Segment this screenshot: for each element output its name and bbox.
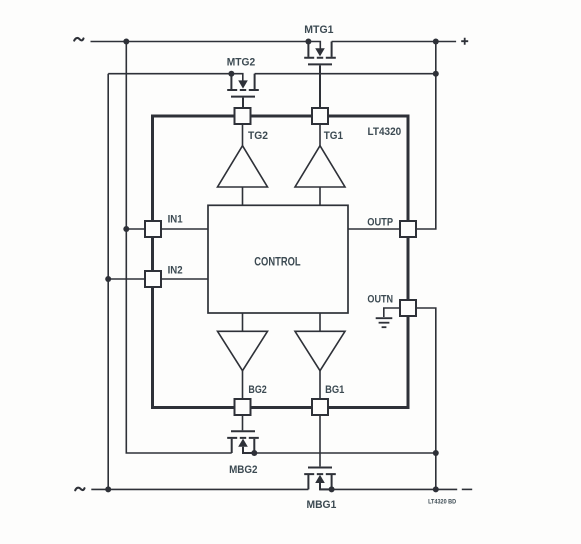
svg-text:BG1: BG1 [325, 384, 344, 396]
wire TG1 pin to buffer A1 [319, 124, 321, 146]
wire TG2 pin to buffer A2 [242, 124, 244, 146]
node junction dot OUTN line / bottom rail [433, 486, 439, 492]
svg-text:LT4320: LT4320 [368, 126, 402, 138]
pin OUTP [400, 221, 416, 237]
wire OUTN right line down to bottom rail [416, 308, 436, 489]
buffer A2 gate driver TG2 [218, 146, 268, 187]
svg-text:CONTROL: CONTROL [254, 256, 300, 268]
node junction dot line A / top rail [123, 39, 129, 45]
svg-text:OUTN: OUTN [367, 294, 393, 306]
wire buffer A4 to BG1 pin [319, 371, 321, 399]
wire line B (x=108) from MTG2 drain down to bottom rail [107, 74, 109, 490]
ground [376, 318, 393, 327]
wire IN2 pin to CONTROL [161, 278, 208, 280]
svg-text:TG1: TG1 [324, 130, 343, 142]
svg-text:LT4320 BD: LT4320 BD [428, 499, 456, 506]
wire bottom rail right [320, 488, 457, 490]
pin IN1 [145, 221, 161, 237]
wire line A (x=126) from top rail down to MBG2 drain [126, 42, 231, 454]
node junction dot line B / bottom rail [105, 486, 111, 492]
wire IN2 from line B to IN2 pin [108, 278, 145, 280]
buffer A4 gate driver BG1 [295, 331, 345, 370]
+ terminal [461, 38, 468, 45]
wire MBG1 gate from BG1 pin [319, 415, 321, 466]
svg-text:BG2: BG2 [248, 384, 266, 396]
pin IN2 [145, 271, 161, 287]
svg-text:IN2: IN2 [168, 264, 183, 276]
wire MBG2 source to OUTN line [254, 452, 435, 454]
wire CONTROL to buffer A3 (BG2) [242, 313, 244, 331]
svg-text:MTG1: MTG1 [304, 24, 333, 36]
wire MTG2 drain net: corner at line B down [108, 74, 243, 81]
svg-text:MTG2: MTG2 [227, 56, 255, 68]
wire IN1 pin to CONTROL [161, 228, 208, 230]
control block [208, 205, 348, 313]
svg-text:TG2: TG2 [248, 130, 268, 142]
wire buffer A1 to CONTROL [319, 187, 321, 205]
chip outline U1 LT4320 [153, 116, 409, 408]
AC source terminal bottom (~) [75, 488, 84, 491]
buffer A1 gate driver TG1 [295, 146, 345, 187]
svg-text:MBG1: MBG1 [307, 499, 337, 511]
wire MTG2 source to OUTP vertical line [255, 73, 436, 75]
transistor MBG2 (N-MOSFET, bottom left) [227, 431, 259, 453]
transistor MBG1 (N-MOSFET, bottom right) [304, 468, 336, 490]
node junction dot line A / IN1 wire [123, 226, 129, 232]
svg-text:MBG2: MBG2 [229, 464, 257, 476]
wire top rail right to + terminal [332, 41, 457, 43]
wire buffer A2 to CONTROL [242, 187, 244, 205]
pin OUTN [400, 300, 416, 316]
node junction dot MTG1 drain [305, 39, 311, 45]
wire CONTROL to OUTP pin [348, 228, 400, 230]
wire top AC rail left (net AC1) [91, 42, 321, 49]
node junction dot MTG2 drain [228, 71, 234, 77]
pin BG2 [235, 399, 251, 415]
wire IN1 from line A to IN1 pin [126, 228, 145, 230]
pin BG1 [312, 399, 328, 415]
svg-text:IN1: IN1 [168, 214, 183, 226]
node junction dot MTG2 source / OUTP line [433, 71, 439, 77]
node junction dot + rail to OUTP line [433, 39, 439, 45]
node junction dot MBG1 source / bottom rail [329, 486, 335, 492]
pin TG1 [312, 108, 328, 124]
wire MBG2 gate from BG2 pin [242, 415, 244, 430]
wire buffer A3 to BG2 pin [242, 371, 244, 399]
buffer A3 gate driver BG2 [218, 331, 268, 370]
node junction dot line B / IN2 wire [105, 276, 111, 282]
wire OUTP vertical line from + rail down to OUTP pin [416, 42, 436, 230]
node junction dot MBG2 source [251, 450, 257, 456]
transistor MTG1 (N-MOSFET, top right) [304, 42, 336, 109]
transistor MTG2 (N-MOSFET, top left) [227, 74, 259, 108]
node junction dot OUTN line / MBG2 source wire [433, 450, 439, 456]
wire CONTROL to buffer A4 (BG1) [319, 313, 321, 331]
AC source terminal top (~) [74, 38, 83, 41]
wire OUTN to ground [384, 308, 400, 317]
wire dashed continuation bottom right [462, 488, 472, 490]
svg-text:OUTP: OUTP [367, 216, 393, 228]
pin TG2 [235, 108, 251, 124]
wire bottom AC rail left (net AC2) [91, 488, 308, 490]
